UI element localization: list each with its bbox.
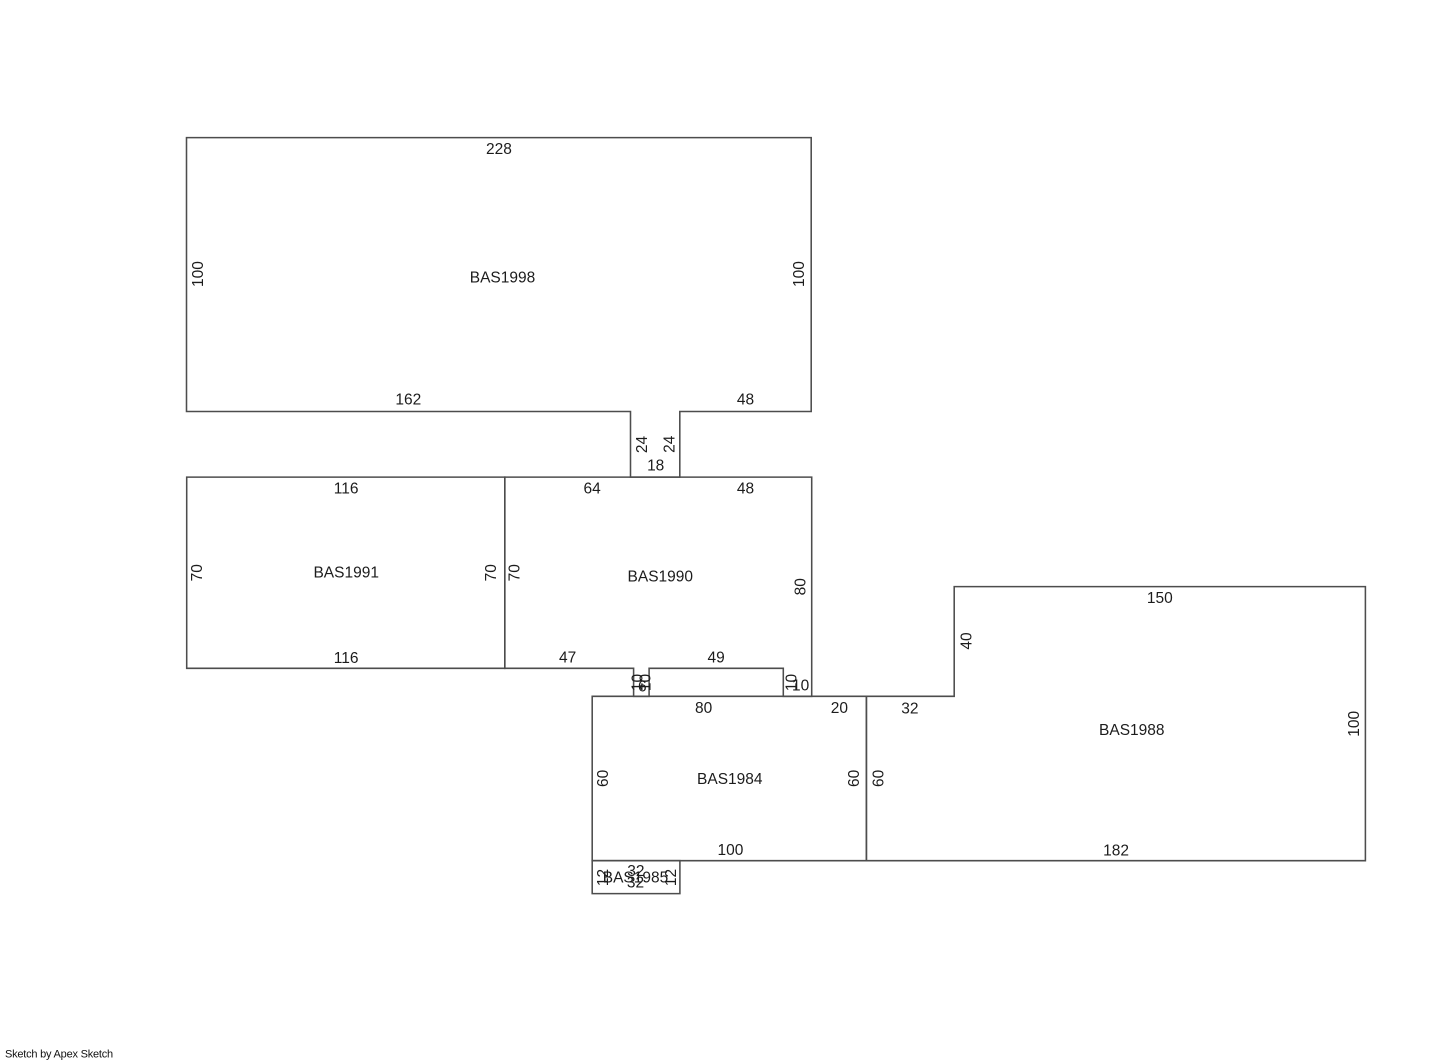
svg-text:100: 100	[717, 842, 743, 859]
svg-text:49: 49	[707, 650, 724, 667]
svg-text:70: 70	[189, 564, 206, 582]
svg-text:20: 20	[831, 700, 849, 717]
svg-text:32: 32	[901, 701, 918, 718]
svg-text:BAS1985: BAS1985	[603, 870, 669, 887]
svg-text:116: 116	[334, 650, 359, 667]
svg-text:60: 60	[595, 769, 612, 787]
svg-text:70: 70	[483, 564, 500, 582]
svg-text:47: 47	[559, 650, 576, 667]
room BAS1991 outline	[187, 477, 505, 668]
svg-text:100: 100	[190, 261, 207, 287]
svg-text:BAS1990: BAS1990	[628, 569, 694, 586]
svg-text:BAS1991: BAS1991	[313, 565, 379, 582]
svg-text:80: 80	[695, 700, 713, 717]
svg-text:182: 182	[1103, 842, 1129, 859]
svg-text:24: 24	[661, 435, 678, 453]
room BAS1984 outline	[592, 696, 866, 860]
svg-text:150: 150	[1147, 590, 1173, 607]
svg-text:48: 48	[737, 392, 754, 409]
svg-text:64: 64	[583, 481, 601, 498]
svg-text:116: 116	[334, 480, 359, 497]
room BAS1988 outline	[866, 587, 1365, 861]
svg-text:10: 10	[792, 677, 810, 694]
svg-text:BAS1998: BAS1998	[470, 270, 536, 287]
svg-text:228: 228	[486, 141, 512, 158]
svg-text:100: 100	[1346, 710, 1363, 736]
svg-text:60: 60	[870, 769, 887, 787]
room BAS1990 outline	[505, 477, 812, 696]
svg-text:Sketch by Apex Sketch: Sketch by Apex Sketch	[5, 1048, 113, 1060]
svg-text:100: 100	[791, 261, 808, 287]
svg-text:70: 70	[507, 564, 524, 582]
svg-text:162: 162	[395, 392, 421, 409]
svg-text:40: 40	[958, 632, 975, 650]
room BAS1985 outline	[592, 861, 680, 894]
svg-text:BAS1988: BAS1988	[1099, 722, 1165, 739]
svg-text:60: 60	[846, 769, 863, 787]
svg-text:BAS1984: BAS1984	[697, 771, 763, 788]
svg-text:18: 18	[647, 458, 664, 475]
svg-text:80: 80	[793, 578, 810, 596]
svg-text:24: 24	[634, 436, 651, 454]
room BAS1998 outline	[187, 138, 812, 478]
svg-text:48: 48	[737, 481, 754, 498]
svg-text:6: 6	[638, 679, 647, 696]
